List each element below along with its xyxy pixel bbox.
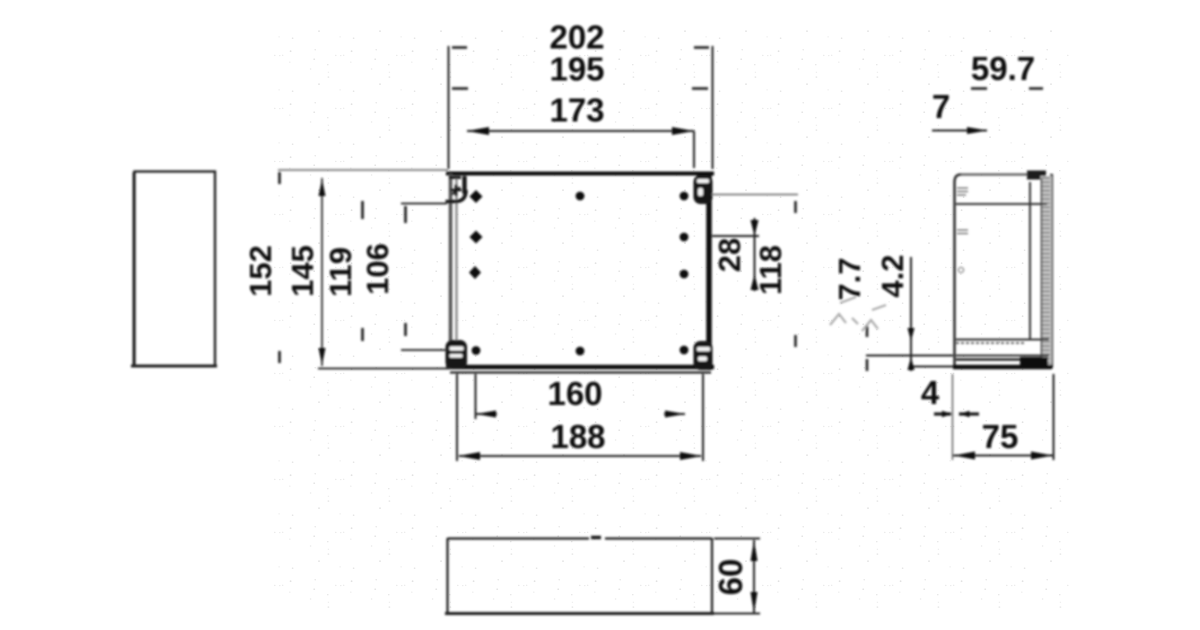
svg-text:7: 7 [932, 88, 950, 125]
svg-text:188: 188 [550, 418, 605, 455]
svg-text:59.7: 59.7 [971, 50, 1035, 87]
svg-text:160: 160 [547, 375, 602, 412]
svg-text:145: 145 [285, 245, 320, 297]
svg-text:152: 152 [243, 245, 278, 297]
svg-text:173: 173 [549, 92, 604, 129]
svg-text:195: 195 [549, 51, 604, 88]
svg-text:60: 60 [712, 559, 749, 596]
svg-text:4: 4 [921, 374, 940, 411]
svg-text:106: 106 [360, 243, 395, 295]
svg-text:118: 118 [753, 245, 788, 295]
svg-text:75: 75 [982, 418, 1019, 455]
svg-text:7.7: 7.7 [832, 257, 867, 300]
svg-text:4.2: 4.2 [875, 254, 910, 297]
svg-text:28: 28 [712, 238, 747, 272]
svg-text:119: 119 [323, 247, 358, 297]
